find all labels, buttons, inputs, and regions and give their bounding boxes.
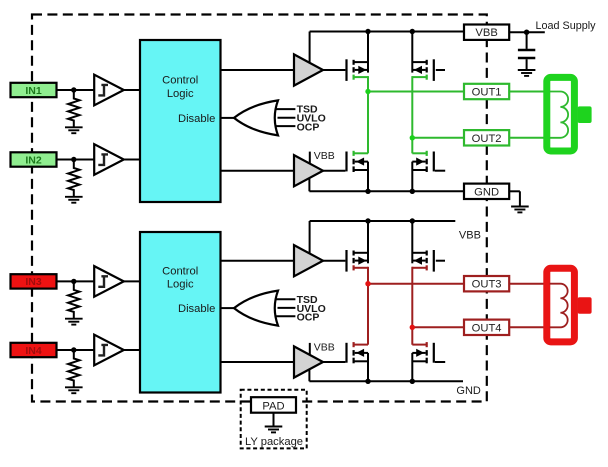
node VBB rail junctions — [365, 29, 370, 34]
wire buffer to control logic — [124, 89, 140, 91]
ground of R2 — [65, 197, 83, 203]
R1 (pulldown resistor) — [68, 90, 79, 127]
load LOAD1 (motor winding load) — [547, 77, 592, 151]
input pin IN4 — [11, 343, 57, 357]
svg-text:VBB: VBB — [314, 150, 335, 162]
svg-text:OUT4: OUT4 — [472, 322, 502, 334]
svg-text:OUT1: OUT1 — [472, 87, 502, 99]
input pin IN2 — [11, 152, 57, 166]
wire driver B1 output — [323, 260, 345, 262]
wire OUT1 to load — [509, 91, 546, 93]
wire GND pin to ground — [509, 191, 520, 206]
node load supply junction — [524, 30, 529, 35]
load LOAD2 (motor winding load) — [547, 268, 592, 342]
VBB rail (bridge 1) — [310, 31, 464, 33]
wire control to driver B2 — [221, 361, 295, 363]
svg-text:IN2: IN2 — [25, 154, 42, 166]
wire IN2 to buffer — [57, 159, 95, 161]
wire output node legs (#2eb92e) — [367, 76, 369, 153]
R4 (pulldown resistor) — [68, 350, 79, 387]
Q7 drain wire — [353, 342, 369, 347]
driver A1 (high-side) (gate driver) — [294, 54, 323, 85]
pin box PAD — [251, 397, 296, 413]
wire IN4 to buffer — [57, 349, 95, 351]
wire IN1 to buffer — [57, 89, 95, 91]
svg-text:Load Supply: Load Supply — [536, 20, 597, 32]
pin box OUT2 — [464, 130, 509, 145]
pin box OUT3 — [464, 276, 509, 291]
node GND rail junctions — [365, 189, 370, 194]
OR gate input wires TSD/UVLO/OCP — [277, 298, 296, 300]
transistor Q6 (high-side right) — [412, 250, 435, 272]
R2 (pulldown resistor) — [68, 160, 79, 197]
Q6 source wire — [412, 265, 428, 270]
svg-text:Control: Control — [162, 75, 198, 87]
GND rail (bridge 2) — [309, 380, 463, 382]
ground of GND pin — [511, 207, 529, 213]
OR gate input wires TSD/UVLO/OCP — [277, 108, 296, 110]
wire gate stub Q4 — [435, 170, 445, 172]
wire driver B2 ground return — [308, 370, 310, 382]
transistor Q5 (high-side left) — [345, 250, 368, 272]
wire gate stub Q8 — [435, 361, 445, 363]
driver A2 (low-side) (gate driver) — [294, 155, 323, 186]
wire OUT2 to load — [509, 137, 546, 139]
input pin IN3 — [11, 274, 57, 288]
svg-text:Control: Control — [162, 266, 198, 278]
schmitt U2B (schmitt trigger input buffer) — [94, 335, 124, 366]
capacitor C1 (supply bypass) — [518, 32, 535, 69]
node OUT-A junction — [365, 281, 370, 286]
pin box VBB — [464, 25, 509, 40]
package outline (dashed border) — [32, 15, 487, 402]
ground of R4 — [65, 387, 83, 393]
transistor Q3 (low-side left) — [345, 152, 368, 173]
wire control to driver B1 — [221, 260, 295, 262]
pin box GND — [464, 184, 509, 199]
node GND rail junctions — [365, 379, 370, 384]
wire VBB to load supply — [509, 31, 545, 33]
node IN1 junction — [71, 87, 76, 92]
Q2 source wire — [412, 75, 428, 80]
transistor Q7 (low-side left) — [345, 343, 368, 364]
svg-text:VBB: VBB — [459, 230, 481, 242]
VBB stub of driver A2 — [309, 152, 311, 164]
svg-text:Logic: Logic — [167, 278, 194, 290]
ground of R1 — [65, 127, 83, 133]
pin box OUT1 — [464, 84, 509, 99]
wire OUT-B from right leg — [412, 137, 464, 139]
node OUT-B junction — [410, 325, 415, 330]
wire OUT3 to load — [509, 283, 546, 285]
transistor Q4 (low-side right) — [412, 152, 435, 173]
schmitt U1B (schmitt trigger input buffer) — [94, 144, 124, 175]
svg-text:OCP: OCP — [297, 121, 320, 133]
wire gate stub Q2 — [436, 69, 445, 71]
schmitt U2A (schmitt trigger input buffer) — [94, 266, 124, 297]
wire drain legs to VBB rail — [367, 32, 369, 73]
node IN4 junction — [71, 347, 76, 352]
svg-text:OUT2: OUT2 — [472, 133, 502, 145]
svg-text:GND: GND — [474, 186, 499, 198]
Q8 drain wire — [412, 342, 428, 347]
OR gate G1 (OR gate, inputs TSD/UVLO/OCP) — [234, 100, 278, 135]
svg-text:OUT3: OUT3 — [472, 279, 502, 291]
wire OUT-B from right leg — [412, 326, 464, 328]
wire driver A2 ground return — [308, 178, 310, 191]
transistor Q2 (high-side right) — [412, 59, 435, 81]
wire OUT-A from left leg — [368, 283, 464, 285]
wire OR gate to Disable — [221, 117, 236, 119]
VBB rail (bridge 2) — [310, 220, 456, 222]
svg-text:Disable: Disable — [178, 303, 215, 315]
Q4 drain wire — [412, 151, 428, 156]
wire OUT4 to load — [509, 326, 546, 328]
schmitt U1A (schmitt trigger input buffer) — [94, 75, 124, 106]
wire buffer to control logic — [124, 349, 140, 351]
wire driver A1 output — [323, 69, 345, 71]
wire control to driver A2 — [221, 170, 295, 172]
node IN2 junction — [71, 157, 76, 162]
svg-text:VBB: VBB — [314, 342, 335, 354]
svg-text:Disable: Disable — [178, 113, 215, 125]
R3 (pulldown resistor) — [68, 281, 79, 318]
pin box OUT4 — [464, 320, 509, 335]
control logic block U4 — [140, 232, 221, 393]
LY package thermal pad outline (dashed) — [241, 390, 307, 449]
svg-text:OCP: OCP — [297, 312, 320, 324]
OR gate G2 (OR gate, inputs TSD/UVLO/OCP) — [234, 291, 278, 326]
wire VBB feed to driver A1 — [309, 32, 311, 63]
Q1 source wire — [353, 75, 369, 80]
GND rail (bridge 1) — [309, 190, 464, 192]
driver B2 (low-side) (gate driver) — [294, 346, 323, 377]
Q3 drain wire — [353, 151, 369, 156]
svg-text:IN4: IN4 — [25, 345, 42, 357]
wire PAD to ground — [273, 413, 275, 426]
wire drain legs to VBB rail — [367, 221, 369, 263]
wire buffer to control logic — [124, 280, 140, 282]
wire driver A2 output — [323, 170, 345, 172]
svg-text:LY package: LY package — [245, 436, 303, 448]
svg-text:Logic: Logic — [167, 88, 194, 100]
control logic block U3 — [140, 40, 221, 202]
node OUT-B junction — [410, 135, 415, 140]
svg-text:GND: GND — [456, 385, 481, 397]
wire driver B2 output — [323, 361, 345, 363]
wire OR gate to Disable — [221, 307, 236, 309]
svg-text:IN3: IN3 — [25, 276, 42, 288]
wire gate stub Q6 — [436, 260, 445, 262]
svg-text:VBB: VBB — [475, 27, 497, 39]
transistor Q8 (low-side right) — [412, 343, 435, 364]
wire source legs to GND rail — [367, 162, 369, 192]
node OUT-A junction — [365, 89, 370, 94]
node IN3 junction — [71, 279, 76, 284]
ground of R3 — [65, 319, 83, 325]
driver B1 (high-side) (gate driver) — [294, 245, 323, 276]
ground of C1 — [518, 70, 536, 76]
wire source legs to GND rail — [367, 353, 369, 381]
svg-text:IN1: IN1 — [25, 85, 42, 97]
Q5 source wire — [353, 265, 369, 270]
VBB stub of driver B2 — [309, 343, 311, 355]
wire output node legs (#9e1f1f) — [367, 267, 369, 345]
svg-text:PAD: PAD — [262, 400, 284, 412]
wire buffer to control logic — [124, 159, 140, 161]
input pin IN1 — [11, 83, 57, 97]
wire OUT-A from left leg — [368, 91, 464, 93]
node VBB rail junctions — [365, 218, 370, 223]
transistor Q1 (high-side left) — [345, 59, 368, 81]
wire control to driver A1 — [221, 69, 295, 71]
wire IN3 to buffer — [57, 280, 95, 282]
wire VBB feed to driver B1 — [309, 221, 311, 254]
ground of PAD — [265, 427, 283, 433]
